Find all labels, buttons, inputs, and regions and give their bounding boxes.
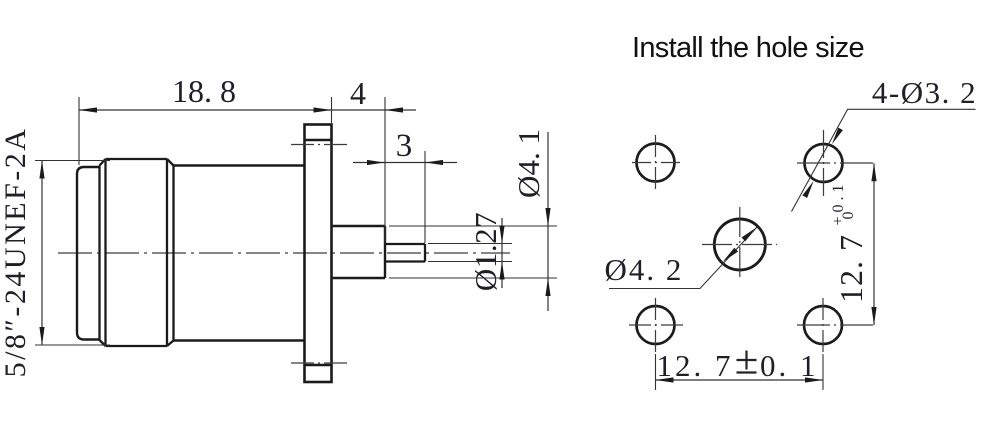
label 12.7 +0.1/0 [830,180,869,303]
svg-text:18. 8: 18. 8 [172,73,236,109]
arrow 5/8 top [39,161,44,179]
ext thread top [35,160,110,162]
flange hole centerline top [291,144,347,146]
ext bottom-right [822,354,824,390]
arrow O1.27 bottom [499,262,504,280]
svg-text:5/8″-24UNEF-2A: 5/8″-24UNEF-2A [0,127,32,378]
dim 3 [353,162,457,164]
ext line shaft end [384,97,386,243]
ext bottom-left [655,354,657,390]
dim 12.7 +0.1/0 vertical [873,163,875,325]
center circle O4.2 [714,219,765,270]
shaft O4.1 [332,226,386,278]
arrow O4.1 bottom [545,278,550,296]
svg-text:Install the hole size: Install the hole size [632,32,864,64]
main centerline [58,252,510,254]
ext thread bottom [35,344,110,346]
ext line flange right [331,97,333,123]
svg-text:Ø4. 2: Ø4. 2 [605,252,684,287]
arrow 18.8 right [314,107,332,112]
svg-text:4: 4 [350,75,366,111]
arrow 5/8 bottom [39,327,44,345]
rear cap [77,167,100,340]
dim O4.1 [547,132,549,311]
main body [174,166,305,341]
leader 4-O3.2 [792,109,976,211]
ext pin bottom [428,261,512,263]
arrow 3 right [425,160,443,165]
dim 18.8 and 4 line [79,109,416,111]
svg-text:Ø4. 1: Ø4. 1 [511,129,546,198]
svg-text:12. 7: 12. 7 [657,348,734,383]
hole bottom-left circle [637,306,675,344]
flange [305,125,332,383]
svg-text:4-Ø3. 2: 4-Ø3. 2 [872,75,977,110]
arrow O1.27 top [499,226,504,244]
hole top-right circle [805,144,843,182]
ext line pin end [424,151,426,243]
dim 12.7 +-0.1 bottom [656,379,824,381]
ext shaft bottom [389,277,557,279]
arrow 18.8 left [79,107,97,112]
arrow 3 left [367,160,385,165]
ext line left 18.8 [78,97,80,165]
pin O1.27 [385,244,425,262]
flange hole centerline bottom [291,362,347,364]
svg-text:3: 3 [396,128,413,164]
ext pin top [428,243,512,245]
svg-text:0: 0 [840,212,857,220]
threaded barrel [100,159,174,346]
hole bottom-right circle [804,306,842,344]
leader O4.2 [609,227,757,288]
svg-text:12. 7: 12. 7 [833,234,869,303]
hole top-left circle [637,144,675,182]
svg-text:0. 1: 0. 1 [760,348,819,383]
dim O1.27 [501,218,503,288]
dim 5/8-24UNEF-2A [41,161,43,346]
ext shaft top [389,225,557,227]
arrow 4 right [385,107,403,112]
svg-text:Ø1.27: Ø1.27 [468,212,503,291]
arrow O4.1 top [545,208,550,226]
flange hole lines [305,139,332,141]
